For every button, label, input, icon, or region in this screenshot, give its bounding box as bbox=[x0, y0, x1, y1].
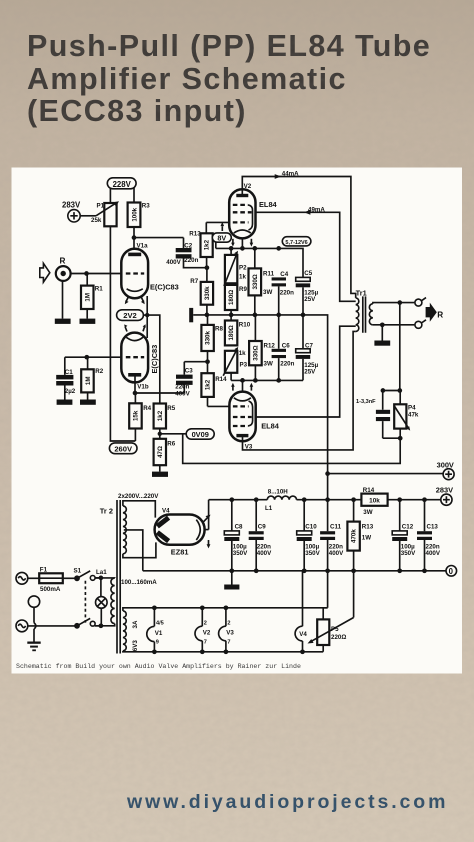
node input junction bbox=[84, 271, 89, 276]
svg-text:R12: R12 bbox=[264, 343, 276, 350]
svg-text:350V: 350V bbox=[305, 550, 320, 557]
wire feedback network bottom connector bbox=[383, 421, 401, 438]
wire neutral bbox=[28, 625, 101, 627]
svg-text:220n: 220n bbox=[280, 361, 294, 368]
svg-text:180Ω: 180Ω bbox=[228, 290, 235, 305]
svg-text:9: 9 bbox=[156, 640, 159, 646]
terminal 283V supply input bbox=[62, 200, 81, 222]
svg-text:R: R bbox=[437, 310, 443, 319]
node feedback cap junction bbox=[397, 388, 402, 393]
wire feedback from secondary bbox=[399, 303, 401, 391]
svg-text:2V2: 2V2 bbox=[123, 311, 137, 320]
node output arrow R bbox=[426, 303, 444, 322]
svg-text:3A: 3A bbox=[132, 620, 139, 628]
svg-text:2x200V...220V: 2x200V...220V bbox=[118, 493, 159, 500]
svg-text:5,7-12V6: 5,7-12V6 bbox=[285, 240, 307, 246]
resistor R12 330R 3W bbox=[249, 315, 275, 381]
svg-text:228V: 228V bbox=[113, 180, 132, 189]
potentiometer P2 1k bbox=[224, 248, 247, 286]
wire R3 top to 228V bbox=[133, 188, 135, 203]
capacitor C7 125u 25V bbox=[296, 315, 319, 381]
svg-text:330k: 330k bbox=[204, 286, 211, 300]
wire V2 cathode row bbox=[216, 239, 303, 278]
svg-text:180Ω: 180Ω bbox=[228, 325, 235, 340]
wire V1a cathode arrows bbox=[125, 297, 145, 305]
input jack J1 bbox=[56, 266, 71, 281]
svg-text:C11: C11 bbox=[330, 523, 342, 530]
svg-text:100k: 100k bbox=[131, 207, 138, 221]
svg-text:7: 7 bbox=[227, 639, 230, 645]
svg-text:R7: R7 bbox=[190, 278, 198, 285]
svg-text:C2: C2 bbox=[184, 243, 192, 250]
resistor R10 180R bbox=[225, 315, 251, 346]
svg-text:E(C)C83: E(C)C83 bbox=[150, 283, 179, 292]
svg-text:1k2: 1k2 bbox=[204, 239, 211, 250]
wire P1 bottom to 260V (feed line) bbox=[110, 226, 135, 441]
terminal 283V bbox=[436, 486, 453, 506]
svg-text:R14: R14 bbox=[215, 376, 227, 383]
mains neutral jack bbox=[16, 620, 28, 632]
wire HV winding centre tap to 0V bbox=[124, 530, 143, 571]
resistor R13 1k2 (V2 grid) bbox=[189, 222, 212, 267]
resistor R6 47R bbox=[154, 439, 176, 472]
wire R5/R6 junction to 0V09 bbox=[160, 433, 186, 435]
transformer Tr1 bbox=[356, 289, 373, 333]
capacitor C4 220n bbox=[272, 271, 295, 315]
svg-text:Tr 2: Tr 2 bbox=[100, 507, 113, 516]
capacitor C6 220n bbox=[272, 315, 295, 381]
svg-text:3W: 3W bbox=[263, 289, 272, 296]
svg-text:400V: 400V bbox=[426, 550, 441, 557]
svg-text:C5: C5 bbox=[304, 270, 312, 277]
wire heater rail top bbox=[123, 608, 328, 611]
svg-text:R13: R13 bbox=[362, 524, 374, 531]
svg-text:1k2: 1k2 bbox=[205, 379, 212, 390]
svg-text:F1: F1 bbox=[40, 566, 48, 573]
svg-text:330Ω: 330Ω bbox=[253, 345, 260, 360]
svg-text:7: 7 bbox=[204, 639, 207, 645]
svg-text:0V09: 0V09 bbox=[192, 430, 209, 439]
wire R14 to V3 grid bbox=[208, 405, 230, 407]
capacitor C5 125u 25V bbox=[296, 270, 319, 315]
svg-text:V2: V2 bbox=[203, 630, 211, 637]
svg-text:C7: C7 bbox=[305, 343, 313, 350]
node 0V09 oval bbox=[186, 429, 214, 439]
resistor R13 470k 1W (bleeder) bbox=[347, 500, 373, 571]
resistor R5 1k2 bbox=[154, 404, 176, 439]
node 2V2 oval bbox=[117, 310, 148, 321]
output jack bottom bbox=[415, 320, 426, 329]
wire mains primary bottom bbox=[95, 624, 115, 626]
svg-text:260V: 260V bbox=[114, 444, 133, 453]
svg-text:V4: V4 bbox=[299, 631, 307, 638]
svg-text:L1: L1 bbox=[265, 505, 273, 512]
potentiometer P1 25k bbox=[91, 201, 119, 226]
ground (C8) bbox=[224, 571, 239, 590]
lamp La1 bbox=[96, 578, 108, 626]
svg-text:R6: R6 bbox=[167, 441, 175, 448]
svg-text:Schematic from Build your own: Schematic from Build your own Audio Valv… bbox=[16, 663, 301, 670]
wire V2 heater arrows bbox=[231, 239, 253, 247]
node R8/R14 junction bbox=[205, 359, 210, 364]
wire V2 anode 44mA to Tr1 bbox=[242, 177, 355, 298]
capacitor C13 220n 400V bbox=[417, 500, 441, 571]
svg-text:R: R bbox=[60, 256, 66, 265]
wire heater rail bottom bbox=[123, 650, 323, 653]
svg-text:400V: 400V bbox=[166, 259, 181, 266]
wire V2 grid bbox=[206, 221, 229, 223]
heater V2 bbox=[195, 608, 211, 652]
svg-text:500mA: 500mA bbox=[40, 586, 61, 593]
svg-text:2: 2 bbox=[227, 620, 230, 626]
tube V2 EL84 bbox=[229, 183, 277, 238]
wire Tr1 secondary top to output bbox=[373, 303, 415, 304]
wire S1 to lamp junction bbox=[95, 577, 101, 579]
wire V3 screen to Tr1 tap bbox=[256, 326, 356, 417]
wire V2 screen 49mA to Tr1 tap bbox=[256, 212, 356, 301]
wire secondary to ground bbox=[381, 325, 383, 341]
node B+ rail junctions bbox=[229, 497, 426, 502]
node 0V rail junctions bbox=[229, 568, 426, 573]
wire C2 bottom to R13/R7 node bbox=[184, 259, 207, 268]
wire 283V to P1 wiper bbox=[80, 215, 96, 217]
resistor R11 330R 3W bbox=[249, 248, 275, 315]
wire feedback network top connector bbox=[383, 391, 401, 410]
node 228V oval bbox=[107, 178, 136, 189]
svg-text:2µ2: 2µ2 bbox=[65, 388, 76, 395]
svg-text:P1: P1 bbox=[97, 203, 105, 210]
svg-text:Tr1: Tr1 bbox=[356, 289, 367, 298]
node feedback tap bbox=[397, 300, 402, 305]
svg-text:R14: R14 bbox=[363, 487, 375, 494]
svg-text:283V: 283V bbox=[62, 200, 81, 209]
wire HV winding bottom tap to V4 anode bbox=[123, 542, 156, 557]
svg-text:1W: 1W bbox=[362, 535, 371, 542]
node bias bar bbox=[189, 308, 193, 322]
svg-text:25V: 25V bbox=[304, 369, 316, 376]
node centre tap junction bbox=[325, 471, 330, 476]
svg-text:C13: C13 bbox=[427, 523, 439, 530]
wire P1 top to 228V bbox=[109, 188, 111, 204]
node R13/R7 junction bbox=[205, 265, 210, 270]
svg-text:R9: R9 bbox=[239, 286, 247, 293]
wire P5 wiper to 0V rail bbox=[353, 571, 355, 618]
svg-text:330k: 330k bbox=[205, 331, 212, 345]
svg-text:220n: 220n bbox=[280, 290, 294, 297]
wire B+ rail bbox=[205, 500, 441, 530]
svg-text:283V: 283V bbox=[436, 486, 453, 495]
svg-text:1M: 1M bbox=[85, 376, 92, 385]
svg-text:1k: 1k bbox=[239, 350, 246, 357]
tube V1b E(C)C83 bbox=[121, 333, 159, 391]
svg-text:P3: P3 bbox=[240, 362, 248, 369]
svg-text:1M: 1M bbox=[85, 293, 92, 302]
ground (input jack) bbox=[55, 319, 71, 324]
svg-text:400V: 400V bbox=[175, 390, 190, 397]
wire mains primary top bbox=[95, 577, 115, 579]
svg-text:C1: C1 bbox=[65, 369, 73, 376]
svg-text:25V: 25V bbox=[304, 296, 316, 303]
wire jack ground stem bbox=[62, 281, 64, 319]
svg-text:P5: P5 bbox=[331, 626, 339, 633]
tube V4 EZ81 bbox=[155, 508, 205, 557]
wire C3 top to R8/R14 node bbox=[184, 361, 207, 363]
wire 0V rail bbox=[143, 570, 446, 572]
capacitor C10 100u 350V bbox=[297, 500, 321, 571]
resistor R9 180R bbox=[225, 285, 248, 315]
svg-text:V3: V3 bbox=[226, 630, 234, 637]
svg-text:1k: 1k bbox=[239, 273, 246, 280]
wire centre tap down to B+ rail bbox=[327, 474, 329, 500]
wire R3 bottom to C2 bbox=[134, 238, 184, 254]
svg-text:EZ81: EZ81 bbox=[171, 548, 189, 557]
svg-text:C9: C9 bbox=[258, 523, 266, 530]
wire V3 heater arrows bbox=[231, 383, 253, 391]
node 44mA arrow bbox=[275, 171, 299, 179]
svg-text:R3: R3 bbox=[142, 203, 150, 210]
switch S1 upper bbox=[63, 567, 95, 581]
wire 2V2 node to R5 (tail) bbox=[147, 315, 160, 403]
svg-text:R2: R2 bbox=[95, 368, 103, 375]
svg-text:V1a: V1a bbox=[137, 242, 149, 249]
wire V1b anode to R4/C3 bbox=[135, 377, 184, 404]
fuse F1 500mA bbox=[28, 566, 63, 593]
terminal 300V bbox=[437, 460, 455, 479]
svg-text:4/5: 4/5 bbox=[156, 621, 164, 627]
svg-text:C6: C6 bbox=[282, 343, 290, 350]
resistor R14 10k 3W (PSU) bbox=[361, 487, 387, 516]
node secondary ground junction bbox=[380, 322, 385, 327]
svg-text:V1: V1 bbox=[155, 630, 163, 637]
svg-text:C8: C8 bbox=[235, 523, 243, 530]
svg-text:V4: V4 bbox=[162, 508, 170, 515]
svg-text:300V: 300V bbox=[437, 460, 454, 469]
heater V1 bbox=[147, 608, 164, 652]
svg-text:1-3,3nF: 1-3,3nF bbox=[356, 399, 376, 405]
capacitor C3 220n 400V bbox=[175, 362, 193, 398]
svg-text:400V: 400V bbox=[257, 550, 272, 557]
svg-text:8V: 8V bbox=[217, 234, 226, 243]
wire B+ centre tap to 300V bbox=[328, 473, 444, 475]
node La1 junction bbox=[96, 569, 107, 580]
ground (Tr1 secondary) bbox=[374, 341, 390, 346]
capacitor feedback 1-3,3nF bbox=[356, 399, 390, 421]
svg-text:V1b: V1b bbox=[137, 384, 149, 391]
wire cathode rail V3 bbox=[231, 379, 303, 381]
svg-text:R11: R11 bbox=[263, 270, 275, 277]
node R3/V1a anode junction bbox=[132, 235, 137, 240]
svg-text:3W: 3W bbox=[363, 509, 372, 516]
node 5,7-12V6 oval bbox=[282, 237, 311, 246]
svg-text:EL84: EL84 bbox=[261, 421, 280, 430]
node 2V2 junction bbox=[145, 313, 149, 317]
tube V3 EL84 bbox=[229, 380, 279, 450]
svg-text:350V: 350V bbox=[233, 550, 248, 557]
capacitor C8 100u 350V bbox=[224, 500, 248, 571]
heater V3 bbox=[219, 608, 235, 652]
node V3 rail junctions bbox=[240, 378, 281, 383]
output jack top bbox=[415, 298, 426, 307]
inductor L1 8-10H bbox=[265, 489, 296, 513]
wire V3 anode to Tr1 bbox=[243, 331, 356, 450]
resistor R8 330k bbox=[201, 315, 223, 362]
wire HV winding top tap to V4 anode bbox=[123, 501, 155, 518]
svg-text:100...160mA: 100...160mA bbox=[121, 579, 157, 586]
resistor R1 bbox=[81, 274, 103, 319]
svg-text:6V3: 6V3 bbox=[132, 640, 139, 652]
svg-text:8...10H: 8...10H bbox=[268, 489, 288, 496]
resistor R14 1k2 (phase splitter) bbox=[201, 362, 227, 407]
transformer Tr2 bbox=[100, 493, 159, 653]
svg-text:R1: R1 bbox=[95, 286, 103, 293]
svg-text:2: 2 bbox=[204, 620, 207, 626]
svg-text:330Ω: 330Ω bbox=[252, 274, 259, 289]
terminal 0 bbox=[446, 566, 457, 577]
svg-text:C12: C12 bbox=[402, 523, 414, 530]
paper bbox=[12, 168, 463, 674]
wire V1b cathode arrows bbox=[124, 324, 146, 331]
svg-text:47Ω: 47Ω bbox=[157, 446, 164, 458]
svg-text:1k2: 1k2 bbox=[157, 410, 164, 421]
svg-text:R4: R4 bbox=[143, 405, 151, 412]
wire V1b grid bbox=[65, 356, 122, 358]
potentiometer P4 47k bbox=[394, 404, 419, 430]
resistor R7 330k bbox=[190, 268, 213, 315]
tube V1a E(C)C83 bbox=[121, 242, 178, 298]
svg-text:3W: 3W bbox=[264, 361, 273, 368]
svg-text:E(C)C83: E(C)C83 bbox=[150, 345, 159, 374]
wire R4 bottom to 260V bbox=[134, 429, 136, 442]
svg-text:49mA: 49mA bbox=[308, 206, 325, 213]
node 260V oval bbox=[109, 443, 137, 454]
switch S1 lower bbox=[74, 618, 95, 628]
potentiometer P3 1k bbox=[223, 347, 247, 381]
svg-text:220Ω: 220Ω bbox=[331, 634, 346, 641]
ground (R6) bbox=[152, 472, 168, 477]
svg-text:La1: La1 bbox=[96, 569, 107, 576]
svg-text:25k: 25k bbox=[91, 217, 102, 224]
svg-text:C4: C4 bbox=[280, 271, 288, 278]
svg-text:V2: V2 bbox=[244, 183, 252, 190]
node 49mA arrow bbox=[304, 206, 325, 214]
wire V4 arrows bbox=[204, 515, 211, 549]
svg-text:44mA: 44mA bbox=[282, 171, 299, 178]
ground (R2) bbox=[80, 400, 96, 405]
capacitor C11 220n 400V bbox=[320, 500, 344, 571]
node 8V oval bbox=[212, 222, 231, 249]
wire common rail (bar to Tr1 centre) bbox=[193, 315, 327, 474]
node R5/R6 feedback junction bbox=[158, 432, 162, 436]
svg-text:R13: R13 bbox=[189, 230, 201, 237]
node cathode row junctions bbox=[229, 246, 281, 251]
svg-text:400V: 400V bbox=[329, 550, 344, 557]
capacitor C9 220n 400V bbox=[249, 500, 272, 571]
svg-text:15k: 15k bbox=[133, 410, 140, 421]
node V1b anode junction bbox=[133, 391, 138, 396]
potentiometer P5 220R bbox=[308, 571, 354, 652]
heater V4 bbox=[295, 571, 307, 652]
wire Tr1 secondary bottom to output bbox=[373, 324, 415, 326]
svg-text:EL84: EL84 bbox=[259, 200, 278, 209]
svg-text:R8: R8 bbox=[215, 325, 223, 332]
resistor R3 bbox=[128, 203, 151, 238]
capacitor C12 100u 350V bbox=[392, 500, 416, 571]
svg-text:470k: 470k bbox=[351, 529, 358, 543]
ground (mains earth) bbox=[27, 642, 40, 652]
earth terminal bbox=[28, 596, 39, 642]
wire 2V2 node to V1b cathode bbox=[146, 315, 148, 338]
svg-text:220n: 220n bbox=[184, 257, 198, 264]
wire feedback to R5/R6 junction bbox=[183, 434, 401, 464]
svg-text:R10: R10 bbox=[239, 322, 251, 329]
svg-text:S1: S1 bbox=[74, 567, 82, 574]
node lamp bottom junction bbox=[99, 623, 104, 628]
svg-text:10k: 10k bbox=[369, 497, 380, 504]
capacitor C2 220n 400V bbox=[166, 243, 198, 266]
capacitor C1 2u2 bbox=[56, 357, 76, 399]
svg-text:47k: 47k bbox=[408, 411, 419, 418]
svg-text:350V: 350V bbox=[401, 550, 416, 557]
svg-text:0: 0 bbox=[449, 567, 454, 576]
switch S1 mechanical link bbox=[84, 581, 86, 623]
resistor R2 bbox=[81, 357, 104, 399]
input arrow bbox=[40, 263, 50, 282]
resistor R4 15k bbox=[129, 403, 151, 428]
wire V1a cathode to 2V2 node bbox=[146, 296, 148, 315]
svg-text:C3: C3 bbox=[185, 367, 193, 374]
wire input to V1a grid bbox=[70, 273, 121, 275]
node heater rail junctions bbox=[152, 605, 305, 654]
node rail junctions bbox=[205, 313, 306, 318]
ground (C1) bbox=[57, 400, 73, 405]
node C1/R2 junction bbox=[84, 355, 89, 360]
svg-text:C10: C10 bbox=[305, 523, 317, 530]
ground (R1) bbox=[80, 319, 96, 324]
mains live jack bbox=[16, 572, 28, 584]
svg-text:P2: P2 bbox=[239, 264, 247, 271]
svg-text:R5: R5 bbox=[167, 405, 175, 412]
